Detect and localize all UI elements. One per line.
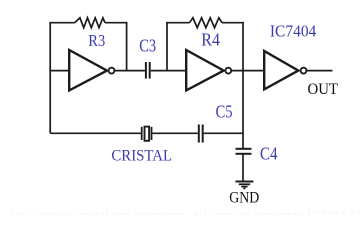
wire: R3 top right segment: [105, 22, 127, 24]
ground symbol bar 4: [243, 187, 245, 189]
wire: R3 top left segment: [49, 22, 74, 24]
capacitor C4 top plate: [236, 148, 252, 150]
crystal right plate: [151, 127, 153, 140]
svg-text:C4: C4: [260, 144, 278, 164]
svg-text:C3: C3: [139, 36, 156, 56]
wire: C5 to output node: [204, 132, 243, 134]
svg-text:CRISTAL: CRISTAL: [111, 146, 172, 165]
inverter 2 output bubble: [225, 68, 231, 74]
resistor R3: [75, 18, 105, 28]
ground symbol bar 1: [235, 181, 253, 183]
wire: output node vertical (R4 right side down to bottom rail): [242, 22, 244, 133]
svg-text:OUT: OUT: [308, 81, 339, 98]
wire: R4 top left segment: [166, 22, 189, 24]
inverter 1 (7404 gate A) triangle: [69, 50, 107, 90]
wire: crystal to C5: [152, 132, 198, 134]
capacitor C5 right plate: [202, 125, 204, 143]
wire: inverter 1 input: [50, 70, 69, 72]
capacitor C3 left plate: [145, 62, 147, 79]
crystal body rectangle: [145, 127, 150, 141]
svg-text:C5: C5: [216, 102, 233, 122]
wire: R3 right vertical: [126, 22, 128, 71]
ground symbol bar 3: [241, 186, 247, 188]
svg-text:R3: R3: [88, 31, 105, 50]
wire: bottom rail from input node to crystal: [50, 132, 141, 134]
inverter 3 output bubble: [301, 68, 307, 74]
svg-text:GND: GND: [229, 190, 259, 207]
capacitor C3 right plate: [149, 62, 151, 79]
wire: inverter 3 output to OUT: [306, 70, 332, 72]
svg-text:IC7404: IC7404: [270, 21, 317, 40]
ground symbol bar 2: [239, 183, 250, 185]
svg-text:Oscilador a cristal con invers: Oscilador a cristal con inversores del c…: [10, 207, 360, 215]
inverter 2 (7404 gate B) triangle: [186, 50, 224, 90]
inverter 1 output bubble: [109, 68, 115, 74]
inverter 3 (IC7404 gate C) triangle: [264, 51, 298, 89]
capacitor C4 bottom plate: [236, 153, 252, 155]
crystal left plate: [141, 127, 143, 140]
capacitor C5 left plate: [198, 125, 200, 143]
svg-text:R4: R4: [201, 30, 220, 50]
wire: R4 top right segment: [222, 22, 244, 24]
wire: left vertical (inverter 1 input node, R3 loop to crystal rail): [49, 23, 51, 134]
resistor R4: [190, 18, 223, 28]
wire: R4 left vertical: [166, 22, 168, 71]
wire: inverter 2 output to inverter 3 input: [231, 70, 264, 72]
wire: inverter 1 output to C3: [114, 70, 144, 72]
wire: output node down to C4: [242, 133, 244, 148]
wire: C3 to inverter 2 input: [151, 70, 187, 72]
wire: C4 to ground: [242, 154, 244, 181]
